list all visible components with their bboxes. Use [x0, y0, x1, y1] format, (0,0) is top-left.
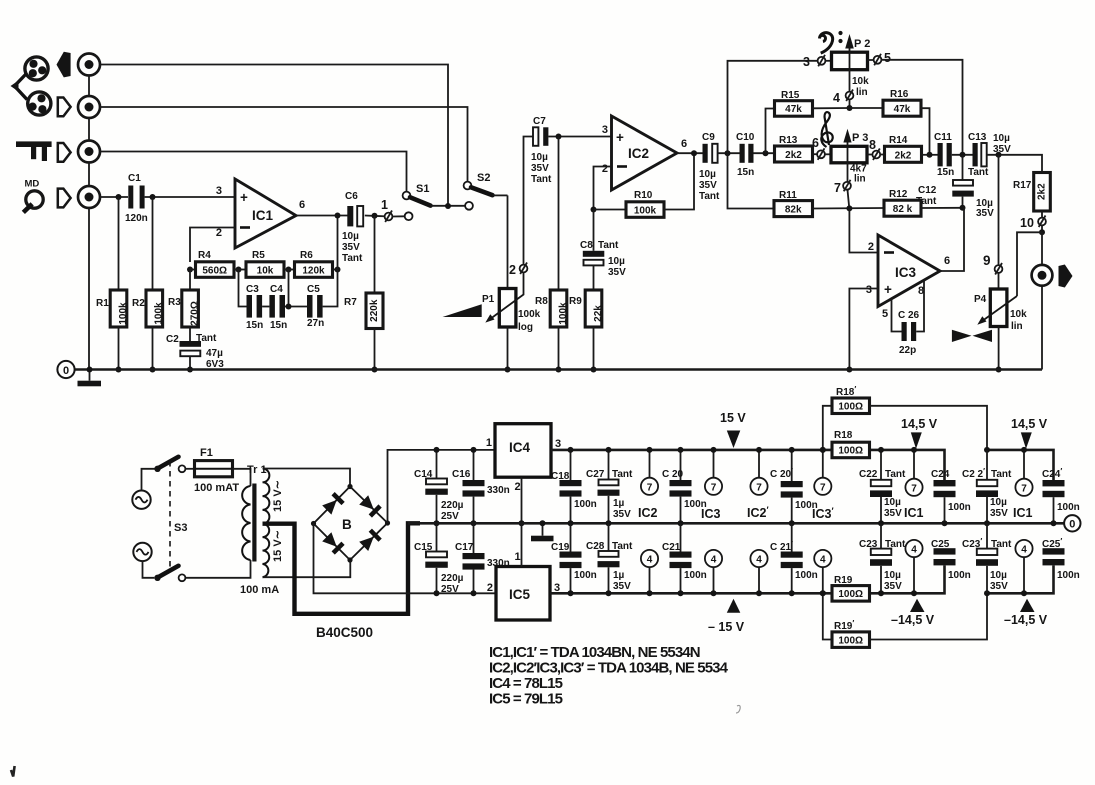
svg-text:15n: 15n	[246, 320, 263, 331]
svg-text:35V: 35V	[976, 208, 994, 219]
capacitor C22 (tant 10u 35V)	[859, 450, 906, 523]
svg-text:6: 6	[299, 199, 305, 211]
svg-text:10: 10	[1020, 216, 1034, 230]
resistor R11	[774, 190, 813, 217]
regulator IC4 (78L15)	[486, 424, 561, 493]
wire IC3 pin5 stub	[892, 299, 902, 332]
svg-text:R9: R9	[569, 296, 582, 307]
svg-text:4: 4	[756, 555, 762, 566]
svg-text:35V: 35V	[993, 144, 1011, 155]
svg-text:Tant: Tant	[991, 539, 1012, 550]
svg-text:100k: 100k	[558, 302, 569, 325]
svg-text:IC1,IC1′ = TDA 1034BN, NE 5534: IC1,IC1′ = TDA 1034BN, NE 5534N	[489, 644, 700, 661]
svg-text:5: 5	[884, 51, 891, 65]
capacitor C7 (10u 35V Tant)	[531, 116, 552, 185]
node 9 (board pin)	[983, 253, 1002, 275]
svg-text:15 V∼: 15 V∼	[272, 530, 284, 562]
svg-text:10µ: 10µ	[884, 497, 901, 508]
capacitor C5	[307, 284, 324, 329]
svg-text:100 mA: 100 mA	[240, 584, 279, 596]
supply pin 4 of IC1	[905, 540, 922, 593]
svg-text:100Ω: 100Ω	[838, 589, 863, 600]
wire IC1 output row	[296, 215, 348, 217]
svg-text:C11: C11	[934, 132, 952, 143]
svg-text:R3: R3	[168, 297, 181, 308]
junction C10/R13/R15	[763, 150, 769, 156]
capacitor C27 (tant 1u 35V)	[586, 450, 633, 523]
svg-text:35V: 35V	[699, 180, 717, 191]
svg-text:R7: R7	[344, 297, 357, 308]
op-amp IC1	[216, 179, 305, 248]
node 1 (board pin)	[381, 198, 392, 222]
svg-text:15n: 15n	[937, 167, 954, 178]
svg-text:0: 0	[1069, 519, 1075, 531]
svg-text:R17: R17	[1013, 180, 1032, 191]
capacitor C4	[269, 284, 287, 331]
svg-text:–14,5 V: –14,5 V	[891, 613, 935, 627]
wire P2 wiper to node 4	[849, 70, 851, 108]
junction R14/R16/C11	[927, 152, 933, 158]
svg-text:1µ: 1µ	[613, 498, 625, 509]
note IC types	[489, 644, 729, 708]
wire P1 wiper up to C7	[524, 137, 534, 265]
wire IC3 pin3 to ground rail	[849, 289, 878, 370]
svg-text:IC3: IC3	[895, 265, 917, 280]
svg-text:9: 9	[983, 253, 991, 268]
svg-text:P1: P1	[482, 294, 495, 305]
svg-text:100 mAT: 100 mAT	[194, 482, 239, 494]
wire C10 node up to R15	[766, 109, 775, 154]
svg-text:35V: 35V	[990, 508, 1008, 519]
S1 throw contact	[405, 212, 413, 220]
wire secondary bottom to bridge AC2	[263, 560, 351, 577]
junction jack column/rail	[87, 367, 93, 373]
svg-text:IC1: IC1	[1013, 506, 1033, 520]
junction cap row	[286, 304, 292, 310]
svg-text:Tant: Tant	[968, 167, 989, 178]
svg-text:C9: C9	[702, 132, 715, 143]
wire P2-5 down to C11/C13 node	[868, 60, 963, 155]
svg-text:C8: C8	[580, 240, 593, 251]
svg-text:C14: C14	[414, 469, 433, 480]
supply pin 4 of IC2'	[750, 550, 767, 593]
supply pin 4 of IC3'	[814, 550, 831, 593]
capacitor C9 (10u 35V Tant)	[699, 132, 720, 202]
svg-text:100Ω: 100Ω	[838, 635, 863, 646]
resistor R18'	[823, 385, 870, 450]
arrow record-out (filled, pointing left)	[57, 52, 71, 78]
svg-text:100n: 100n	[574, 499, 597, 510]
capacitor C22' (tant 10u 35V)	[962, 450, 1012, 523]
op-amp IC2	[602, 116, 687, 190]
svg-text:IC4: IC4	[509, 440, 531, 455]
transformer Tr1 secondary winding (2x 15V)	[263, 469, 270, 578]
svg-text:100n: 100n	[574, 570, 597, 581]
svg-text:Tant: Tant	[598, 240, 619, 251]
svg-text:3: 3	[803, 55, 810, 69]
wire Tr1 primary bottom to S3b	[185, 560, 250, 578]
resistor R13	[775, 135, 813, 162]
capacitor C20 (100n)	[662, 450, 707, 523]
node 8 (P3 right)	[867, 138, 880, 160]
balance icon	[952, 330, 992, 342]
svg-text:C2 2′: C2 2′	[962, 467, 985, 480]
svg-text:120k: 120k	[302, 265, 325, 276]
svg-text:C16: C16	[452, 469, 471, 480]
svg-text:7: 7	[756, 482, 762, 493]
wire IC5 pin1 to 0 rail	[521, 523, 523, 566]
resistor R15	[775, 90, 813, 116]
supply pin 7 of IC1'	[1015, 450, 1032, 496]
svg-text:4: 4	[711, 555, 717, 566]
junction IC3 pin3/rail	[846, 367, 852, 373]
0V rail (middle)	[408, 522, 1064, 525]
svg-text:IC3′: IC3′	[812, 506, 834, 521]
wire node to IC3 pin2	[849, 208, 878, 252]
svg-text:IC4 = 78L15: IC4 = 78L15	[489, 675, 563, 692]
node 5 (P2 right)	[874, 51, 891, 65]
capacitor C11 (15n)	[934, 132, 954, 178]
transformer Tr1 core	[252, 484, 256, 562]
junction R5/R6	[286, 267, 292, 273]
svg-text:IC5 = 79L15: IC5 = 79L15	[489, 691, 563, 708]
svg-text:35V: 35V	[531, 163, 549, 174]
ground rail (0 V)	[75, 368, 1043, 371]
svg-text:C6: C6	[345, 191, 358, 202]
svg-text:B40C500: B40C500	[316, 625, 373, 640]
svg-text:6: 6	[812, 136, 819, 150]
svg-text:Tant: Tant	[531, 174, 552, 185]
svg-text:4: 4	[1021, 545, 1027, 556]
terminal 0 (right)	[1064, 515, 1080, 531]
svg-text:220k: 220k	[369, 299, 380, 322]
svg-text:2k2: 2k2	[895, 150, 912, 161]
capacitor C8 (tant 10u 35V)	[580, 210, 626, 291]
wire IC4 pin2 to 0 rail	[521, 477, 523, 523]
svg-text:47µ: 47µ	[206, 348, 223, 359]
svg-text:+: +	[616, 130, 624, 145]
resistor R14	[880, 135, 921, 162]
svg-text:2k2: 2k2	[785, 150, 802, 161]
svg-text:4: 4	[820, 555, 826, 566]
wire R11 to R12	[813, 207, 885, 210]
svg-text:log: log	[518, 322, 533, 333]
wire input3 to S1 hinge	[100, 152, 407, 192]
svg-text:IC2: IC2	[628, 146, 649, 161]
svg-text:14,5 V: 14,5 V	[901, 417, 938, 431]
potentiometer P1 100k log	[482, 273, 541, 370]
wire node10 to P4 wiper	[1017, 232, 1042, 296]
svg-text:35V: 35V	[342, 242, 360, 253]
capacitor C13 (10u 35V Tant)	[968, 132, 1011, 178]
junction output/feedback riser	[335, 213, 341, 219]
node 6 (P3 left)	[812, 136, 825, 160]
svg-text:7: 7	[711, 482, 717, 493]
svg-text:10k: 10k	[257, 265, 274, 276]
svg-text:25V: 25V	[441, 584, 459, 595]
svg-text:IC1: IC1	[904, 506, 924, 520]
svg-text:Tant: Tant	[612, 469, 633, 480]
svg-text:270Ω: 270Ω	[190, 301, 201, 326]
resistor R19	[832, 575, 870, 601]
resistor R1	[96, 197, 129, 370]
wire S3a to F1	[185, 468, 194, 470]
svg-text:C 20′: C 20′	[770, 467, 793, 480]
wire IC2 pin2 to R10	[594, 167, 612, 210]
resistor R4	[196, 250, 235, 277]
svg-text:C24: C24	[931, 469, 950, 480]
potentiometer P3 4k7 lin (treble)	[825, 129, 868, 185]
svg-text:IC1: IC1	[252, 208, 274, 223]
svg-text:– 15 V: – 15 V	[708, 620, 745, 634]
switch S1	[403, 183, 465, 206]
svg-text:35V: 35V	[608, 267, 626, 278]
supply pin 4 of IC2	[641, 550, 658, 593]
capacitor C18 (100n)	[551, 450, 597, 523]
svg-text:2: 2	[509, 263, 516, 277]
AC source top (mains L)	[132, 491, 150, 509]
capacitor C17 (330n)	[455, 523, 510, 593]
input jack J2	[78, 96, 100, 118]
bridge rectifier B (B40C500)	[311, 484, 390, 563]
junction R12/C12/IC3out	[960, 205, 966, 211]
svg-text:R5: R5	[252, 250, 265, 261]
svg-text:C1: C1	[128, 173, 141, 184]
wire C6 to point 1	[365, 215, 385, 218]
svg-text:P4: P4	[974, 294, 987, 305]
svg-text:100k: 100k	[154, 302, 165, 325]
wire R14 to C11	[922, 154, 938, 156]
junction C2/rail	[187, 367, 193, 373]
svg-text:100n: 100n	[684, 570, 707, 581]
DIN connector icon (record/play DIN socket)	[11, 57, 51, 115]
wire C13 to R17 branch	[987, 155, 1042, 173]
svg-text:C19: C19	[551, 542, 570, 553]
svg-text:7: 7	[820, 482, 826, 493]
wire input1 to S1/S2 node	[100, 65, 448, 207]
svg-text:IC5: IC5	[509, 587, 531, 602]
wire C3 to C4	[262, 306, 269, 308]
svg-text:10µ: 10µ	[990, 570, 1007, 581]
supply pin 4 of IC3	[705, 550, 722, 593]
svg-text:560Ω: 560Ω	[202, 265, 227, 276]
resistor R9	[569, 290, 604, 370]
svg-text:330n: 330n	[487, 485, 510, 496]
wire IC3 output up to R12/C12 node	[940, 208, 964, 271]
svg-text:6: 6	[681, 138, 687, 150]
svg-text:C28: C28	[586, 541, 605, 552]
junction S1/input1 wire	[445, 203, 451, 209]
marker -15V	[708, 599, 745, 634]
svg-text:C13: C13	[968, 132, 987, 143]
svg-text:100k: 100k	[518, 309, 541, 320]
svg-text:35V: 35V	[884, 581, 902, 592]
svg-text:Tant: Tant	[885, 469, 906, 480]
wire node C9/C10 up to P2 terminal 3	[728, 61, 818, 153]
capacitor C12 (tant 10u 35V)	[916, 155, 994, 219]
supply pin 7 of IC3'	[814, 450, 831, 495]
op-amp IC3	[866, 235, 950, 320]
svg-text:10k: 10k	[1010, 309, 1027, 320]
svg-text:7: 7	[834, 181, 841, 195]
svg-text:R10: R10	[634, 190, 653, 201]
stray smudge	[736, 705, 740, 713]
potentiometer P2 10k lin (bass)	[825, 34, 870, 98]
svg-text:100k: 100k	[634, 205, 657, 216]
svg-text:4: 4	[911, 545, 917, 556]
svg-text:35V: 35V	[613, 509, 631, 520]
svg-text:5: 5	[882, 308, 888, 320]
svg-text:4: 4	[647, 555, 653, 566]
svg-text:R6: R6	[300, 250, 313, 261]
capacitor C23 (tant 10u 35V)	[859, 523, 906, 593]
junction P3 wiper / R11R12	[846, 205, 852, 211]
wire input2 to S2 hinge	[100, 107, 468, 182]
svg-text:1: 1	[486, 437, 492, 449]
wire C11 to C13	[952, 154, 973, 156]
switch S2	[464, 172, 508, 195]
resistor R7	[344, 216, 383, 370]
wire R18' to IC1' group	[870, 406, 988, 450]
wire C1 to IC1 pin3	[145, 196, 235, 198]
wire IC2 output	[677, 152, 703, 154]
svg-text:C24′: C24′	[1042, 467, 1062, 480]
wire S3b to AC2	[143, 561, 155, 578]
wire node1 to S1 throw	[392, 215, 404, 217]
wire R10 to IC2 output	[664, 153, 694, 209]
regulator IC5 (79L15)	[487, 551, 560, 620]
svg-text:IC3: IC3	[701, 507, 721, 521]
svg-text:14,5 V: 14,5 V	[1011, 417, 1048, 431]
wire IC3 pin8 stub	[916, 281, 924, 332]
wire node9 column	[998, 155, 1000, 289]
potentiometer P4 10k lin (balance)	[974, 289, 1027, 370]
capacitor C25 (100n)	[931, 539, 971, 581]
svg-text:R13: R13	[779, 135, 798, 146]
svg-text:C17: C17	[455, 542, 474, 553]
junction R4/R5	[236, 267, 242, 273]
svg-text:F1: F1	[200, 447, 213, 459]
arrow MD-in row4 (outline, pointing right)	[58, 189, 71, 208]
svg-text:100Ω: 100Ω	[838, 402, 863, 413]
svg-text:4: 4	[833, 91, 840, 105]
svg-text:120n: 120n	[125, 213, 148, 224]
capacitor C15 (220u 25V)	[414, 523, 464, 595]
svg-text:C23′: C23′	[962, 537, 982, 550]
svg-text:lin: lin	[856, 87, 868, 98]
svg-text:2: 2	[216, 227, 222, 239]
svg-text:R2: R2	[132, 298, 145, 309]
svg-text:P 2: P 2	[854, 38, 870, 50]
svg-text:lin: lin	[1011, 321, 1023, 332]
wire C9 to C10	[718, 152, 740, 154]
svg-text:82k: 82k	[785, 205, 802, 216]
svg-text:C5: C5	[307, 284, 320, 295]
marker +14,5V (IC1)	[901, 417, 938, 449]
diode bridge leg B-R	[359, 530, 380, 551]
marker -14,5V (IC1')	[1004, 599, 1048, 627]
wire secondary top to bridge AC1	[263, 469, 351, 487]
+15V rail	[551, 450, 1054, 480]
svg-text:100n: 100n	[1057, 502, 1080, 513]
wire jack4 to C1	[100, 196, 128, 198]
arrow play-in row2 (outline, pointing right)	[58, 98, 71, 117]
resistor R6	[295, 250, 333, 277]
S1 right contact	[465, 202, 473, 210]
fuse F1 100mAT	[194, 447, 239, 494]
wire C5 right riser to R6 right and output node	[323, 216, 338, 307]
AC source bottom (mains N)	[133, 543, 151, 561]
svg-text:R8: R8	[535, 296, 548, 307]
svg-text:C23: C23	[859, 539, 878, 550]
svg-text:C21: C21	[662, 542, 681, 553]
resistor R12	[884, 189, 921, 216]
svg-text:47k: 47k	[894, 104, 911, 115]
svg-text:Tant: Tant	[342, 253, 363, 264]
svg-text:P 3: P 3	[852, 132, 868, 144]
svg-text:100n: 100n	[948, 502, 971, 513]
junction P1/rail	[505, 367, 511, 373]
svg-text:0: 0	[63, 365, 69, 377]
svg-text:100k: 100k	[118, 302, 129, 325]
svg-text:C27: C27	[586, 469, 605, 480]
svg-text:IC2,IC2′IC3,IC3′ = TDA 1034B,: IC2,IC2′IC3,IC3′ = TDA 1034B, NE 5534	[489, 660, 729, 677]
svg-text:C10: C10	[736, 132, 755, 143]
capacitor C2 (tantalum 47u 6V3)	[166, 327, 224, 370]
svg-text:10µ: 10µ	[531, 152, 548, 163]
resistor R3	[168, 270, 201, 328]
node 7 (P3 wiper)	[834, 180, 851, 195]
svg-text:2: 2	[868, 241, 874, 253]
resistor R8	[535, 137, 569, 370]
svg-text:C3: C3	[246, 284, 259, 295]
supply pin 7 of IC2	[641, 450, 658, 495]
junction R1/rail	[116, 367, 122, 373]
svg-text:C18: C18	[551, 471, 570, 482]
junction R8/rail	[556, 367, 562, 373]
capacitor C25' (100n)	[1042, 537, 1080, 581]
junction P4/rail	[996, 367, 1002, 373]
marker -14,5V (IC1)	[891, 599, 935, 627]
svg-text:100Ω: 100Ω	[838, 446, 863, 457]
wire node10 to output jack and rail	[1041, 232, 1043, 369]
junction R10 left / C8	[591, 207, 597, 213]
wire R19' to IC1' group	[870, 593, 988, 639]
capacitor C10 (15n)	[736, 132, 755, 178]
capacitor C20' (100n)	[770, 450, 818, 523]
wire IC1 pin2 to feedback node	[190, 228, 235, 263]
svg-text:2k2: 2k2	[1037, 183, 1048, 200]
supply pin 7 of IC3	[705, 450, 722, 495]
output jack	[1032, 265, 1053, 286]
svg-text:R4: R4	[198, 250, 211, 261]
svg-text:3: 3	[602, 124, 608, 136]
svg-text:1: 1	[515, 551, 521, 563]
wire bridge + output to raw+ rail	[388, 450, 496, 523]
junction node4/R15/R16	[847, 105, 853, 111]
svg-text:S3: S3	[174, 522, 187, 534]
svg-text:220µ: 220µ	[441, 573, 464, 584]
svg-text:10µ: 10µ	[993, 133, 1010, 144]
svg-text:82 k: 82 k	[893, 204, 913, 215]
turntable icon	[16, 141, 52, 161]
svg-text:22k: 22k	[593, 305, 604, 322]
junction C13/node9 branch	[996, 152, 1002, 158]
svg-text:100n: 100n	[948, 570, 971, 581]
capacitor C21' (100n)	[781, 523, 818, 593]
wire C7 to IC2 pin3	[548, 136, 611, 138]
terminal 0 (left)	[57, 361, 74, 378]
